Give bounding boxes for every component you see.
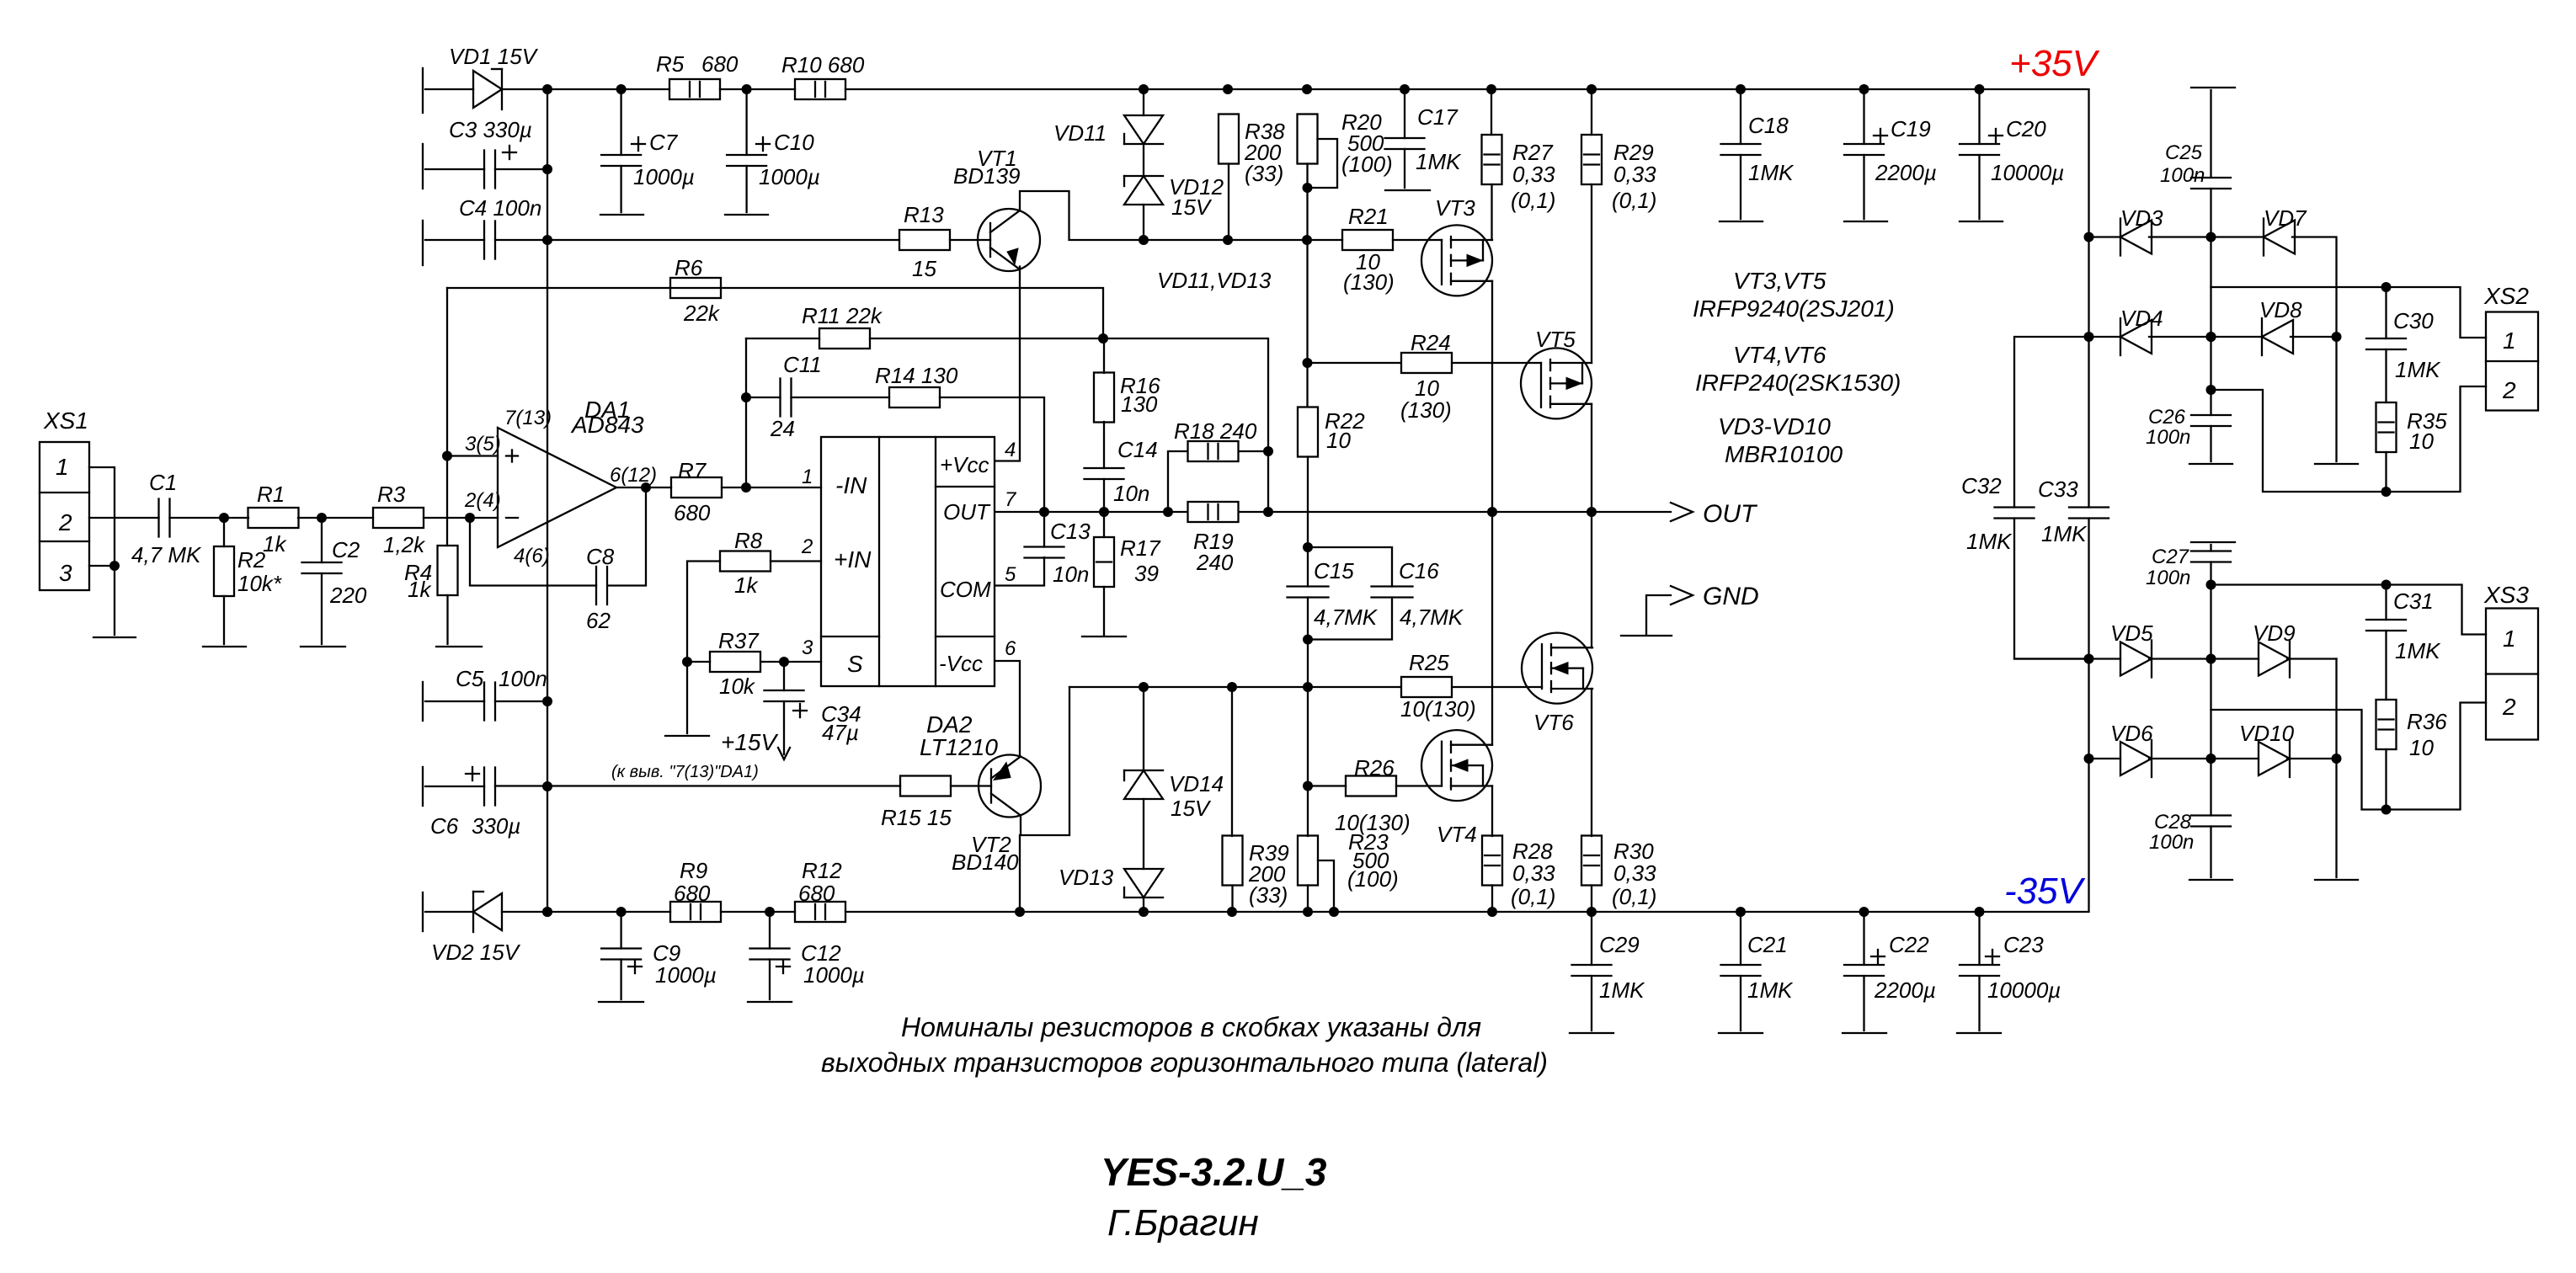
capacitor C11 <box>781 379 792 417</box>
capacitor C25 <box>2191 178 2231 189</box>
wire C25col to VD5 row <box>2210 585 2211 759</box>
svg-text:VD14: VD14 <box>1169 771 1224 796</box>
svg-text:R10 680: R10 680 <box>781 52 865 77</box>
wire VD7 to ground column <box>2292 237 2337 462</box>
svg-text:R25: R25 <box>1409 650 1449 675</box>
svg-text:VT5: VT5 <box>1535 327 1576 352</box>
svg-text:OUT: OUT <box>1703 500 1758 528</box>
svg-text:R1: R1 <box>257 482 285 507</box>
capacitor C33 <box>2069 508 2109 519</box>
resistor R22 <box>1298 407 1318 457</box>
svg-text:IRFP240(2SK1530): IRFP240(2SK1530) <box>1695 370 1901 396</box>
diode VD7 <box>2264 219 2295 256</box>
capacitor C13 <box>1025 547 1064 558</box>
svg-text:39: 39 <box>1134 561 1159 586</box>
capacitor C20 <box>1960 144 1999 155</box>
resistor R38 <box>1219 115 1239 164</box>
svg-text:R2: R2 <box>237 547 266 573</box>
wire R11 left <box>746 338 819 339</box>
svg-text:680: 680 <box>674 881 711 906</box>
svg-text:4,7 MK: 4,7 MK <box>131 542 202 567</box>
plus C9 <box>628 960 642 973</box>
junction <box>779 657 789 667</box>
junction <box>1227 907 1237 917</box>
svg-text:GND: GND <box>1703 583 1759 610</box>
svg-text:(0,1): (0,1) <box>1612 884 1656 909</box>
junction <box>2084 332 2094 342</box>
wire R4 to ground <box>446 595 448 644</box>
resistor R8 <box>720 551 771 572</box>
capacitor C27 <box>2191 551 2231 562</box>
junction <box>1098 333 1108 344</box>
diode VD9 <box>2259 641 2290 678</box>
junction <box>641 482 651 493</box>
svg-text:BD140: BD140 <box>952 850 1019 875</box>
wire C19 lead <box>1863 89 1864 144</box>
resistor R26 <box>1346 776 1396 796</box>
wire feedback C8 right <box>608 487 647 586</box>
wire R6 row <box>447 288 1103 338</box>
wire R5 to R10 <box>720 88 795 90</box>
wire VD14 top <box>1143 687 1144 770</box>
wire C23 to bar <box>1978 976 1980 1031</box>
wire ground column R37 <box>686 662 688 733</box>
svg-text:15: 15 <box>912 256 936 281</box>
wire bias spine mid <box>1307 457 1309 587</box>
svg-text:VD9: VD9 <box>2253 621 2296 646</box>
wire C5 right <box>495 700 547 702</box>
svg-text:4,7MK: 4,7MK <box>1314 605 1379 630</box>
svg-text:VD3: VD3 <box>2120 205 2163 231</box>
junction <box>1487 907 1497 917</box>
svg-text:10000µ: 10000µ <box>1987 977 2061 1003</box>
capacitor C26 <box>2191 415 2231 426</box>
wire C5 left <box>425 700 484 702</box>
svg-text:10000µ: 10000µ <box>1991 160 2064 185</box>
wire R23 wiper <box>1318 860 1334 912</box>
junction <box>2381 487 2392 497</box>
wire C13 top <box>1043 512 1045 547</box>
wire C27 bottom <box>2210 562 2211 585</box>
resistor R1 <box>248 508 299 528</box>
wire R38 bottom <box>1228 164 1229 241</box>
wire VD6 row left <box>2089 758 2121 759</box>
capacitor C6 <box>484 768 495 806</box>
svg-text:1000µ: 1000µ <box>655 962 717 988</box>
wire pin4 to VT1 emitter <box>995 267 1020 461</box>
junction <box>1227 682 1237 692</box>
wire VD9 to column <box>2287 658 2337 659</box>
wire C31 lead <box>2385 585 2387 621</box>
capacitor C14 <box>1085 468 1124 479</box>
wire VD4 to VD8 <box>2149 336 2262 338</box>
resistor R36 <box>2376 700 2397 749</box>
chassis bar C20 <box>1960 221 2003 222</box>
wire C16 bottom <box>1308 598 1392 640</box>
resistor R16 <box>1094 373 1114 423</box>
svg-text:R9: R9 <box>680 858 707 883</box>
wire R16 top <box>1103 338 1105 373</box>
junction <box>616 84 627 94</box>
capacitor C19 <box>1844 144 1884 155</box>
svg-text:+IN: +IN <box>834 546 872 573</box>
junction <box>1303 183 1313 193</box>
ground C2 <box>301 646 345 647</box>
junction <box>542 235 552 245</box>
wire C32 bottom <box>2014 519 2089 659</box>
arrow OUT <box>1671 503 1693 521</box>
resistor R27 <box>1482 135 1502 184</box>
svg-text:R13: R13 <box>904 202 944 227</box>
wire R16 to C14 <box>1103 422 1105 468</box>
junction <box>2206 232 2216 242</box>
svg-text:100n: 100n <box>2149 831 2194 854</box>
wire C28 to ground <box>2210 827 2211 878</box>
junction <box>1263 446 1273 456</box>
plus input mark DA1 <box>506 450 518 462</box>
resistor R35 <box>2376 402 2397 452</box>
wire R28 bottom <box>1491 886 1493 913</box>
wire XS1 pin2 to C1 <box>89 517 159 519</box>
wire DA1 output <box>616 487 671 488</box>
svg-text:S: S <box>847 651 863 677</box>
wire R11 to node <box>870 338 1103 339</box>
svg-text:C10: C10 <box>774 130 814 155</box>
capacitor C23 <box>1960 965 1999 976</box>
wire R27 to VT3 source <box>1491 184 1492 240</box>
junction <box>1302 235 1312 245</box>
wire C22 lead <box>1863 912 1864 965</box>
capacitor C34 <box>765 690 804 701</box>
zener VD12 <box>1124 176 1163 205</box>
junction <box>1736 84 1746 94</box>
wire VT4 source <box>1491 786 1493 837</box>
svg-text:6(12): 6(12) <box>610 464 657 487</box>
wire R18 left <box>1168 451 1187 512</box>
chassis bar C17 <box>1385 189 1430 191</box>
junction <box>765 907 775 917</box>
op-amp DA1 <box>498 428 616 547</box>
wire noninverting input <box>447 455 498 456</box>
ground VD7 VD8 <box>2315 463 2358 465</box>
terminal bar C27 <box>2191 541 2235 543</box>
svg-text:R7: R7 <box>678 458 707 483</box>
resistor R14 <box>889 387 940 407</box>
wire VT5 drain to VT6 drain <box>1591 404 1592 647</box>
capacitor C21 <box>1721 965 1761 976</box>
wire VD9 column down <box>2335 659 2337 878</box>
zener VD1 <box>473 69 502 109</box>
capacitor C22 <box>1844 965 1884 976</box>
svg-text:2200µ: 2200µ <box>1874 977 1936 1003</box>
ground R2 <box>203 646 246 647</box>
svg-text:C17: C17 <box>1417 104 1459 130</box>
svg-text:10k*: 10k* <box>237 571 282 596</box>
wire VD10 to column <box>2287 758 2337 759</box>
junction <box>1139 682 1149 692</box>
resistor R12 <box>795 902 845 922</box>
junction <box>1486 84 1496 94</box>
svg-text:XS1: XS1 <box>43 407 88 434</box>
wire C10 to bar <box>745 166 747 212</box>
wire R20 wiper <box>1308 139 1338 188</box>
wire R8 left <box>687 562 720 663</box>
svg-text:10: 10 <box>2409 735 2434 760</box>
junction <box>1139 907 1149 917</box>
svg-text:15V: 15V <box>1171 796 1212 821</box>
wire C1 to R1 <box>170 517 249 519</box>
svg-text:Номиналы резисторов в скобках: Номиналы резисторов в скобках указаны дл… <box>901 1012 1481 1042</box>
terminal stub C4 input <box>422 221 424 265</box>
wire XS1 pin1 <box>89 467 115 566</box>
junction <box>2206 332 2216 342</box>
svg-text:680: 680 <box>674 500 711 525</box>
ground C21 <box>1719 1032 1763 1034</box>
wire C26 to ground <box>2210 426 2211 461</box>
terminal bar C25 <box>2191 87 2235 88</box>
junction <box>542 84 552 94</box>
arrow to +15V <box>778 748 790 759</box>
wire C18 lead <box>1740 89 1741 144</box>
terminal stub VD2 <box>422 892 424 931</box>
capacitor C2 <box>302 562 342 573</box>
plus C22 <box>1871 950 1885 963</box>
plus C19 <box>1874 129 1887 142</box>
svg-text:2(4): 2(4) <box>464 489 501 512</box>
junction <box>1587 507 1597 517</box>
resistor R18 <box>1188 441 1239 461</box>
junction <box>2206 654 2216 664</box>
svg-text:MBR10100: MBR10100 <box>1725 441 1843 467</box>
svg-text:1MK: 1MK <box>2395 638 2441 663</box>
svg-text:(0,1): (0,1) <box>1511 884 1555 909</box>
resistor R5 <box>669 79 720 99</box>
svg-text:LT1210: LT1210 <box>920 734 998 760</box>
wire C20 to bar <box>1978 155 1980 219</box>
svg-text:10n: 10n <box>1113 481 1149 506</box>
svg-text:-Vcc: -Vcc <box>939 651 983 676</box>
wire C12 lead <box>769 912 771 949</box>
capacitor C1 <box>159 499 170 537</box>
svg-text:C27: C27 <box>2152 546 2190 568</box>
wire VD9 jog <box>2211 710 2387 810</box>
junction <box>2084 754 2094 764</box>
svg-text:C31: C31 <box>2393 589 2434 614</box>
wire R17 to ground <box>1103 587 1105 635</box>
wire R24 row <box>1308 362 1401 364</box>
svg-text:1k: 1k <box>734 573 759 598</box>
svg-text:VT6: VT6 <box>1533 710 1574 735</box>
wire C18 to bar <box>1740 155 1741 219</box>
svg-text:0,33: 0,33 <box>1512 162 1555 187</box>
wire VD11 to VD12 <box>1143 144 1144 176</box>
wire C23 lead <box>1978 912 1980 965</box>
wire XS2 pin1 row <box>2211 287 2487 338</box>
junction <box>1303 682 1313 692</box>
junction <box>542 696 552 706</box>
wire C30 to R35 <box>2385 349 2387 402</box>
svg-text:VD5: VD5 <box>2110 621 2153 646</box>
svg-text:6: 6 <box>1005 637 1016 660</box>
wire R1 to R3 <box>298 517 373 519</box>
svg-text:COM: COM <box>940 577 991 602</box>
wire C11 to R14 <box>792 397 890 398</box>
svg-text:C4 100n: C4 100n <box>459 195 541 221</box>
resistor R3 <box>373 508 424 528</box>
svg-text:680: 680 <box>798 881 835 906</box>
svg-text:C25: C25 <box>2165 141 2203 164</box>
junction <box>741 392 751 402</box>
wire VD14 to VD13 <box>1143 799 1144 869</box>
ground C28 <box>2189 879 2232 881</box>
resistor R2 <box>214 546 234 596</box>
svg-text:2: 2 <box>2502 694 2516 720</box>
wire C21 to bar <box>1740 976 1741 1031</box>
wire R36 bottom <box>2385 749 2387 810</box>
svg-text:R8: R8 <box>734 528 763 553</box>
wire C28 lead <box>2210 759 2211 816</box>
svg-text:1k: 1k <box>263 531 287 557</box>
wire VD2 to rail <box>502 911 670 913</box>
svg-text:BD139: BD139 <box>953 163 1021 189</box>
IC DA2 body <box>821 437 995 686</box>
svg-text:1: 1 <box>56 454 69 480</box>
diode VD4 <box>2120 318 2152 355</box>
arrow GND <box>1671 586 1693 605</box>
resistor R15 <box>900 776 951 796</box>
wire VT3 drain to VT4 drain <box>1491 281 1493 745</box>
svg-text:C30: C30 <box>2393 308 2434 333</box>
svg-text:IRFP9240(2SJ201): IRFP9240(2SJ201) <box>1693 296 1895 322</box>
wire VD2 anode <box>425 911 473 913</box>
junction <box>317 513 327 523</box>
chassis bar C7 <box>600 214 643 216</box>
svg-text:3(5): 3(5) <box>465 433 501 455</box>
wire R20 bottom <box>1306 164 1308 241</box>
svg-text:3: 3 <box>802 636 813 659</box>
svg-text:62: 62 <box>586 608 611 633</box>
wire C21 lead <box>1740 912 1741 965</box>
wire VD4 row left <box>2089 336 2121 338</box>
svg-text:YES-3.2.U_3: YES-3.2.U_3 <box>1101 1150 1327 1194</box>
svg-text:(130): (130) <box>1400 397 1452 423</box>
svg-text:C3 330µ: C3 330µ <box>449 117 532 142</box>
svg-text:C8: C8 <box>586 544 615 569</box>
wire VT2 collector riser <box>1069 686 1400 688</box>
svg-text:10: 10 <box>1326 428 1351 453</box>
svg-text:VD7: VD7 <box>2264 205 2307 231</box>
wire VD12 bottom <box>1143 205 1144 240</box>
junction <box>2206 385 2216 395</box>
chassis bar C18 <box>1720 221 1763 222</box>
svg-text:24: 24 <box>770 416 795 441</box>
resistor R24 <box>1401 353 1452 373</box>
wire C27 lead <box>2210 545 2211 551</box>
terminal stub VD1 input <box>422 68 424 113</box>
capacitor C8 <box>596 567 607 605</box>
plus C34 <box>793 704 807 717</box>
junction <box>1303 781 1313 791</box>
junction <box>1223 235 1233 245</box>
svg-text:100n: 100n <box>2146 567 2190 589</box>
svg-text:Г.Брагин: Г.Брагин <box>1107 1202 1259 1244</box>
wire C7 to bar <box>620 166 621 212</box>
svg-text:1MK: 1MK <box>1599 977 1645 1003</box>
junction <box>2332 332 2342 342</box>
plus C7 <box>632 137 645 151</box>
svg-text:1000µ: 1000µ <box>633 164 695 189</box>
junction <box>1139 84 1149 94</box>
wire VD3 row left <box>2089 236 2121 237</box>
diode VD3 <box>2120 219 2152 256</box>
ground C22 <box>1843 1032 1886 1034</box>
junction <box>2381 282 2392 292</box>
wire C9 lead <box>620 912 621 949</box>
resistor R7 <box>671 477 722 498</box>
plus C12 <box>776 960 790 973</box>
wire VD1 anode <box>425 88 473 90</box>
junction <box>2206 754 2216 764</box>
chassis bar C19 <box>1844 221 1887 222</box>
capacitor C9 <box>601 949 641 960</box>
junction <box>616 907 627 917</box>
resistor R13 <box>899 230 950 250</box>
wire VT1 collector <box>1020 191 1307 240</box>
capacitor C29 <box>1572 965 1612 976</box>
wire R3 to inverting input <box>424 517 498 519</box>
svg-text:10(130): 10(130) <box>1335 810 1411 835</box>
wire bias spine lower <box>1307 687 1309 836</box>
diode VD10 <box>2259 740 2290 777</box>
resistor R19 <box>1188 502 1239 522</box>
svg-text:5: 5 <box>1005 563 1016 586</box>
capacitor C12 <box>750 949 790 960</box>
wire R21 row <box>1307 239 1342 241</box>
wire XS2 pin2 loop <box>2211 386 2487 492</box>
plus C3 <box>503 146 516 159</box>
wire VT2 collector path <box>1021 687 1069 835</box>
wire C2 to ground <box>321 573 323 644</box>
svg-text:XS2: XS2 <box>2483 283 2529 309</box>
svg-text:R18 240: R18 240 <box>1174 418 1257 444</box>
svg-text:XS3: XS3 <box>2483 582 2529 608</box>
wire R24 to VT5 gate <box>1453 362 1541 364</box>
svg-text:R26: R26 <box>1354 755 1395 780</box>
resistor R30 <box>1581 836 1602 886</box>
resistor R37 <box>710 652 760 672</box>
diode VD5 <box>2120 641 2152 678</box>
wire C6 left <box>425 786 484 787</box>
wire R39 top <box>1231 687 1233 836</box>
wire C6 to R15 <box>495 785 900 786</box>
svg-text:VT4,VT6: VT4,VT6 <box>1733 342 1827 368</box>
wire R25 to VT6 gate <box>1453 686 1542 688</box>
junction <box>1303 542 1313 552</box>
junction <box>1487 507 1497 517</box>
wire C19 to bar <box>1863 155 1864 219</box>
svg-text:C28: C28 <box>2154 811 2192 834</box>
svg-text:2: 2 <box>58 509 72 535</box>
svg-text:VD4: VD4 <box>2120 306 2163 331</box>
junction <box>109 561 120 571</box>
svg-text:R15 15: R15 15 <box>881 805 952 830</box>
terminal stub C5 <box>422 682 424 721</box>
junction <box>1015 907 1025 917</box>
svg-text:VD10: VD10 <box>2239 721 2295 746</box>
junction <box>1975 907 1985 917</box>
wire XS3 pin1 row <box>2211 585 2487 635</box>
wire R18 right <box>1239 450 1268 452</box>
